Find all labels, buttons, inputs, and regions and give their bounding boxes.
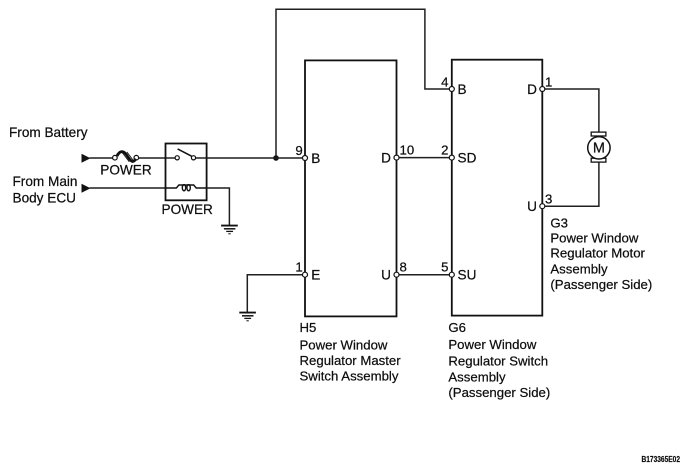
svg-text:POWER: POWER: [162, 202, 214, 217]
svg-text:M: M: [593, 141, 605, 157]
svg-text:SD: SD: [458, 151, 477, 166]
svg-text:Assembly: Assembly: [448, 369, 506, 384]
svg-text:Power Window: Power Window: [550, 231, 638, 246]
G6 box: Power Window Regulator Switch Assembly: [452, 60, 543, 316]
wire H5 pin U to G6 pin SU: [397, 274, 452, 276]
svg-text:9: 9: [295, 143, 302, 158]
ground (relay coil): [221, 226, 238, 234]
label G6 component name: [448, 320, 550, 400]
svg-text:8: 8: [400, 260, 407, 275]
wire G6 pin D to motor: [542, 89, 599, 132]
wire relay to H5 pin B: [207, 157, 305, 159]
label G3 component name: [550, 215, 652, 291]
svg-text:Body ECU: Body ECU: [13, 190, 76, 205]
ground (H5 pin E): [239, 313, 256, 321]
wire H5 pin E to ground: [247, 275, 305, 313]
wire relay coil to ground: [207, 188, 230, 226]
pin circle G6 SD: [449, 155, 454, 160]
svg-text:B173365E02: B173365E02: [642, 454, 681, 464]
wire top loop from node A to G6 pin B: [276, 9, 452, 158]
svg-text:Regulator Master: Regulator Master: [300, 353, 402, 368]
svg-text:2: 2: [441, 143, 448, 158]
pin circle G6 SU: [449, 272, 454, 277]
relay coil: [166, 185, 207, 191]
svg-text:4: 4: [441, 74, 448, 89]
svg-text:D: D: [381, 151, 391, 166]
pin circle H5 E: [303, 272, 308, 277]
svg-text:G3: G3: [550, 215, 568, 230]
fuse POWER (fusible link): [113, 152, 139, 162]
svg-text:B: B: [458, 82, 467, 97]
arrow from battery: [82, 154, 91, 163]
svg-text:E: E: [311, 268, 320, 283]
svg-text:G6: G6: [448, 320, 466, 335]
svg-text:Regulator Motor: Regulator Motor: [550, 246, 645, 261]
wire motor to G6 pin U: [542, 162, 599, 206]
svg-text:U: U: [527, 199, 537, 214]
pin circle G6 B: [449, 87, 454, 92]
svg-text:H5: H5: [300, 320, 317, 335]
pin circle G6 D: [540, 87, 545, 92]
H5 box: Power Window Regulator Master Switch Assembly: [305, 60, 397, 316]
pin circle H5 B: [303, 156, 308, 161]
svg-text:From Battery: From Battery: [9, 125, 88, 140]
wire from battery arrow to fuse: [90, 157, 114, 159]
svg-text:Power Window: Power Window: [300, 338, 388, 353]
svg-text:Assembly: Assembly: [550, 261, 608, 276]
pin circle G6 U: [540, 204, 545, 209]
relay switch contact wires: [166, 157, 176, 159]
svg-text:SU: SU: [458, 268, 477, 283]
svg-text:1: 1: [295, 260, 302, 275]
wire H5 pin D to G6 pin SD: [397, 157, 452, 159]
svg-text:(Passenger Side): (Passenger Side): [550, 277, 652, 292]
svg-text:1: 1: [545, 74, 552, 89]
svg-text:B: B: [311, 151, 320, 166]
pin circle H5 U: [394, 272, 399, 277]
pin circle H5 D: [394, 155, 399, 160]
svg-text:D: D: [527, 82, 537, 97]
relay POWER box: [166, 144, 207, 201]
svg-text:10: 10: [400, 143, 415, 158]
svg-text:Switch Assembly: Switch Assembly: [300, 368, 399, 383]
label H5 component name: [300, 320, 402, 384]
wire from ECU arrow to relay coil: [90, 187, 166, 189]
relay switch contacts: [175, 149, 196, 160]
motor M (power window regulator motor): [588, 132, 610, 162]
svg-text:POWER: POWER: [100, 162, 152, 177]
svg-text:From Main: From Main: [13, 174, 78, 189]
node A junction dot: [273, 155, 279, 161]
wire from fuse to relay: [139, 157, 166, 159]
svg-text:(Passenger Side): (Passenger Side): [448, 385, 550, 400]
svg-text:3: 3: [545, 191, 552, 206]
arrow from main body ECU: [82, 184, 91, 193]
svg-text:U: U: [381, 268, 391, 283]
svg-text:Regulator Switch: Regulator Switch: [448, 353, 548, 368]
svg-text:Power Window: Power Window: [448, 337, 536, 352]
svg-text:5: 5: [441, 260, 448, 275]
